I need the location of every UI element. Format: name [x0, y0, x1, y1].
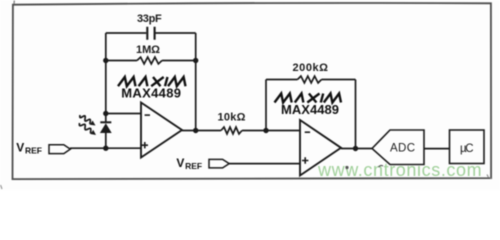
- op-amp U2 minus sign: [305, 131, 310, 133]
- resistor R3 200k zigzag: [298, 76, 322, 83]
- wire feedback loop 1 left vertical (inverting node): [105, 33, 107, 122]
- wire inverting input op-amp U1: [106, 113, 141, 115]
- svg-text:ADC: ADC: [390, 142, 415, 154]
- MAXIM logo U2: [275, 94, 342, 103]
- photodiode D1 anode wire: [105, 133, 107, 148]
- wire 1M ohm branch: [106, 60, 137, 62]
- svg-text:REF: REF: [25, 146, 42, 156]
- svg-text:1MΩ: 1MΩ: [136, 44, 160, 56]
- border frame: [13, 3, 492, 179]
- op-amp U1 output wire: [182, 130, 221, 132]
- op-amp U2 output wire to ADC: [341, 148, 372, 150]
- photodiode light arrow upper: [80, 115, 96, 126]
- svg-text:µC: µC: [460, 143, 474, 155]
- artifact bottom-left: [1, 185, 3, 189]
- artifact bottom-right: [487, 175, 491, 180]
- wire VREF2 to op-amp U2 non-inverting input: [229, 163, 300, 165]
- svg-text:V: V: [176, 156, 184, 170]
- junction node U2 output: [353, 146, 358, 151]
- connector VREF1 port symbol: [49, 145, 70, 154]
- junction node U1 output: [193, 128, 198, 133]
- op-amp U2 plus sign: [302, 157, 308, 163]
- op-amp U1 minus sign: [145, 114, 150, 116]
- wire feedback loop 2 top left: [266, 79, 298, 81]
- MAXIM logo U1: [118, 77, 186, 86]
- svg-text:V: V: [16, 141, 24, 155]
- junction node 1M left: [103, 58, 108, 63]
- capacitor C1 33pF plates: [147, 27, 154, 40]
- ADC block: [372, 130, 424, 165]
- watermark speck 1: [345, 166, 348, 169]
- svg-text:MAX4489: MAX4489: [121, 86, 181, 101]
- svg-text:200kΩ: 200kΩ: [293, 62, 329, 74]
- resistor R2 10k zigzag: [221, 127, 242, 134]
- wire 1M ohm branch right: [162, 60, 196, 62]
- wire feedback loop 2 right vertical: [355, 80, 357, 149]
- junction node inverting input U1: [103, 111, 108, 116]
- op-amp U1 triangle: [141, 103, 182, 158]
- wire feedback loop 2 left vertical: [265, 80, 267, 131]
- watermark speck 2: [379, 165, 384, 167]
- wire feedback loop 2 top right: [322, 79, 356, 81]
- junction node 1M right: [193, 58, 198, 63]
- corner tick artifact: [13, 0, 15, 4]
- connector VREF2 port symbol: [209, 159, 229, 168]
- svg-text:REF: REF: [185, 161, 202, 171]
- photodiode light arrow lower: [79, 123, 96, 135]
- wire ADC to uC: [424, 148, 450, 150]
- svg-text:10kΩ: 10kΩ: [218, 112, 246, 124]
- svg-text:MAX4489: MAX4489: [281, 102, 339, 117]
- wire feedback loop 1 top (to 33pF): [106, 32, 196, 34]
- photodiode D1 cathode bar: [100, 121, 111, 123]
- op-amp U2 triangle: [300, 120, 341, 176]
- junction node U2 inverting: [263, 128, 268, 133]
- junction node VREF line: [103, 146, 108, 151]
- resistor R1 1Mohm zigzag: [137, 57, 162, 64]
- photodiode D1 triangle: [100, 123, 112, 133]
- op-amp U1 plus sign: [142, 142, 148, 148]
- microcontroller uC block: [450, 130, 485, 164]
- wire feedback loop 1 right vertical: [195, 33, 197, 131]
- wire non-inverting input op-amp U1 (VREF line): [70, 147, 141, 149]
- wire 10k to op-amp U2 inverting input: [242, 130, 300, 132]
- svg-text:33pF: 33pF: [137, 13, 162, 25]
